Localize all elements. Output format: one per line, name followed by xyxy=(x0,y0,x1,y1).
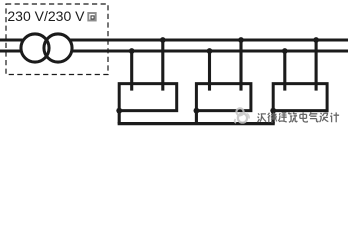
junction dot on bus L1 at B3 xyxy=(313,37,319,43)
junction dot on bus N at A2 xyxy=(207,48,213,54)
wire: drop A3 from bus N xyxy=(283,51,286,91)
wire: drop A1 from bus N xyxy=(130,51,133,91)
load box 3 xyxy=(273,84,327,111)
svg-text:230 V/230 V: 230 V/230 V xyxy=(7,8,85,24)
char 筑 xyxy=(288,112,297,122)
wire: second bus N xyxy=(0,49,348,52)
load box 1 xyxy=(119,84,177,111)
junction dot load 2 bottom-left xyxy=(194,108,200,114)
wire: drop B2 from bus L1 xyxy=(239,40,242,91)
wire: drop A2 from bus N xyxy=(208,51,211,91)
watermark text (CJK drawn as strokes) xyxy=(258,112,339,122)
wire: drop B1 from bus L1 xyxy=(161,40,164,91)
dashed enclosure around transformer xyxy=(6,4,108,75)
char 设 xyxy=(320,113,329,122)
junction dot load 1 bottom-left xyxy=(116,108,122,114)
junction dot on bus N at A3 xyxy=(282,48,288,54)
wire: PE drop from load 1 xyxy=(118,111,121,124)
class II insulation symbol (square in square) xyxy=(88,13,95,21)
wire: bottom equipotential bus xyxy=(118,122,275,125)
char 建 xyxy=(278,113,286,122)
char 计 xyxy=(330,112,339,122)
wire: PE drop from load 2 xyxy=(195,111,198,124)
char 德 xyxy=(268,113,277,123)
wire: top bus L1 xyxy=(0,38,348,41)
junction dot on bus L1 at B1 xyxy=(160,37,166,43)
wire: drop B3 from bus L1 xyxy=(315,40,318,91)
wire: PE drop from load 3 xyxy=(272,111,275,124)
junction dot on bus L1 at B2 xyxy=(238,37,244,43)
watermark logo swirl xyxy=(235,108,250,123)
transformer T1 230V/230V (isolating) xyxy=(21,34,72,62)
char 气 xyxy=(309,112,318,122)
junction dot on bus N at A1 xyxy=(129,48,135,54)
load box 2 xyxy=(196,84,251,111)
char 汉 xyxy=(258,113,267,122)
char 电 xyxy=(300,112,308,122)
junction dot load 3 bottom-left xyxy=(270,108,276,114)
